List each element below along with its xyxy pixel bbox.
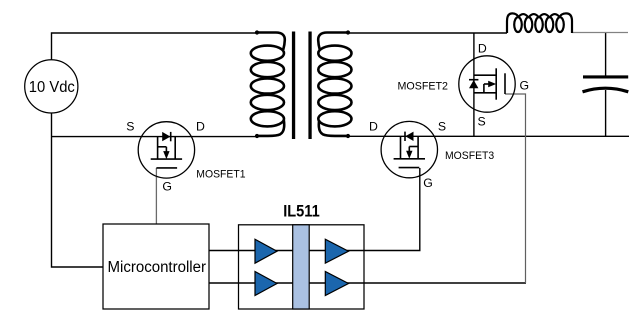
svg-text:S: S [477,115,485,129]
svg-text:D: D [369,119,378,133]
svg-text:MOSFET3: MOSFET3 [445,150,494,162]
svg-text:MOSFET1: MOSFET1 [196,168,245,180]
svg-text:G: G [520,78,530,92]
svg-text:10 Vdc: 10 Vdc [29,79,75,96]
svg-text:Microcontroller: Microcontroller [108,259,207,276]
svg-text:MOSFET2: MOSFET2 [398,80,449,92]
svg-text:IL511: IL511 [283,203,320,221]
svg-text:G: G [423,176,433,190]
svg-text:D: D [478,42,487,56]
svg-text:G: G [162,179,172,193]
svg-text:S: S [438,119,446,133]
svg-text:S: S [126,119,134,133]
svg-text:D: D [196,119,205,133]
